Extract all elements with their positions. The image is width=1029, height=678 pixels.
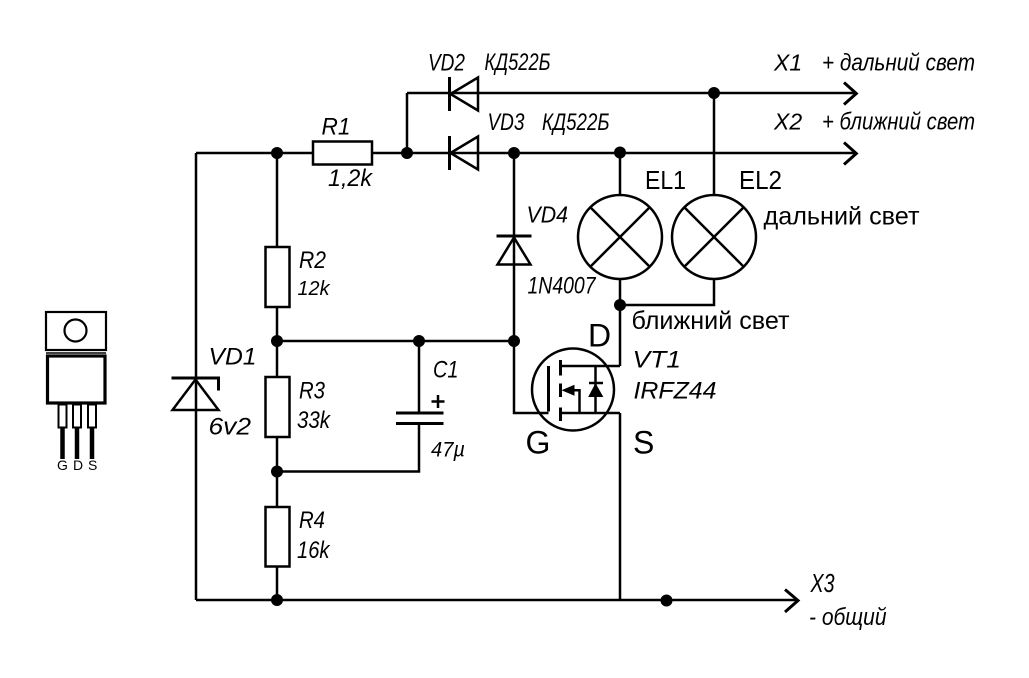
svg-text:X2: X2 — [773, 109, 802, 135]
svg-text:R1: R1 — [322, 114, 351, 141]
wire: R3 top vertical — [276, 341, 279, 377]
svg-text:S: S — [88, 457, 97, 473]
TO-220 mounting hole — [65, 320, 87, 342]
wire: X2 line through VD3 — [407, 152, 854, 155]
junction dot: EL2 top on X1 line — [708, 87, 720, 99]
wire: mid horizontal node bus — [277, 340, 514, 343]
wire: bottom common rail to X3 — [196, 599, 796, 602]
wire: top horizontal from left rail to R1 — [196, 152, 313, 155]
wire: X1 line — [407, 92, 854, 95]
svg-text:+ дальний свет: + дальний свет — [822, 50, 975, 77]
body diode cathode bar — [589, 382, 603, 385]
svg-text:G: G — [57, 457, 68, 473]
body diode filled triangle — [589, 384, 603, 396]
svg-text:VD1: VD1 — [209, 344, 257, 371]
wire: R4 top vertical — [276, 472, 279, 508]
TO-220 leg 1 lower solid — [60, 428, 65, 460]
TO-220 tab/body separator line — [46, 352, 106, 354]
svg-text:R3: R3 — [299, 378, 326, 405]
channel dashes — [559, 360, 562, 421]
junction dot: R1 left node — [271, 147, 283, 159]
svg-text:G: G — [526, 425, 551, 461]
junction dot: mid bus at VD4/gate — [508, 335, 520, 347]
body tie with arrow — [565, 390, 580, 413]
svg-text:КД522Б: КД522Б — [485, 49, 551, 76]
source lead inside — [561, 412, 621, 415]
wire: source vertical to bottom rail — [619, 413, 622, 600]
wire: R1 output to node — [372, 152, 407, 155]
arrowhead X2 — [844, 143, 856, 165]
TO-220 package drawing — [46, 312, 106, 459]
junction dot: bottom rail at R4 — [271, 594, 283, 606]
svg-text:IRFZ44: IRFZ44 — [634, 378, 717, 405]
capacitor C1 — [396, 413, 444, 424]
svg-text:C1: C1 — [433, 357, 459, 384]
TO-220 leg 2 lower solid — [75, 428, 80, 460]
wire: R2 bottom vertical — [276, 307, 279, 341]
svg-text:VT1: VT1 — [633, 347, 682, 374]
svg-text:+ ближний свет: + ближний свет — [822, 109, 975, 136]
wire: EL1 top vertical — [619, 153, 622, 195]
lamp EL1 — [578, 195, 662, 279]
TO-220 plastic body — [48, 356, 106, 403]
svg-text:- общий: - общий — [809, 604, 887, 631]
resistor R4 — [266, 507, 290, 567]
svg-text:VD2: VD2 — [428, 50, 465, 77]
wire: lamp bottoms bus — [620, 279, 714, 305]
svg-text:EL2: EL2 — [739, 165, 782, 195]
svg-text:12k: 12k — [298, 278, 331, 300]
wire: vertical between X1 line and R1 node — [406, 93, 409, 153]
TO-220 metal tab — [46, 312, 106, 350]
svg-text:33k: 33k — [297, 407, 332, 434]
body diode line — [594, 366, 597, 413]
svg-text:D: D — [588, 318, 611, 354]
wire: R2 top vertical — [276, 153, 279, 247]
wire: drain vertical — [619, 305, 622, 366]
svg-text:EL1: EL1 — [645, 165, 686, 195]
arrowhead X3 — [785, 590, 798, 613]
TO-220 leg 2 outline — [73, 405, 81, 428]
svg-text:D: D — [73, 457, 83, 473]
resistor R3 — [266, 377, 290, 437]
resistor R2 — [266, 247, 290, 307]
zener diode VD1 — [172, 378, 219, 410]
junction dot: bottom rail right — [661, 595, 673, 607]
junction dot: mid bus at R2/R3 — [271, 335, 283, 347]
junction dot: lamp bottoms / drain node — [614, 299, 626, 311]
diode VD2 — [450, 77, 479, 111]
wire: gate connection from VD4 node — [514, 341, 549, 413]
svg-text:VD4: VD4 — [527, 202, 569, 228]
gate bar — [547, 366, 550, 412]
TO-220 leg 3 outline — [88, 405, 96, 428]
junction dot: mid bus at C1 — [413, 335, 425, 347]
svg-text:VD3: VD3 — [488, 109, 526, 136]
wire: C1 top vertical — [418, 341, 421, 413]
svg-text:дальний свет: дальний свет — [764, 203, 921, 231]
svg-text:S: S — [633, 425, 654, 461]
TO-220 leg 1 outline — [59, 405, 67, 428]
body arrow head (points to channel) — [562, 385, 575, 396]
svg-text:16k: 16k — [297, 537, 331, 564]
junction dot: EL1 top on X2 line — [614, 147, 626, 159]
wire: VD4 branch vertical — [513, 153, 516, 341]
junction dot: R3/R4/C1 node — [271, 466, 283, 478]
svg-text:1,2k: 1,2k — [328, 165, 374, 192]
wire: left vertical rail — [195, 153, 198, 600]
svg-text:X1: X1 — [773, 50, 802, 76]
TO-220 leg 3 lower solid — [90, 428, 95, 460]
wire: R4 bottom vertical — [276, 567, 279, 601]
svg-text:КД522Б: КД522Б — [542, 109, 610, 136]
resistor R1 — [313, 142, 372, 165]
svg-text:R2: R2 — [299, 247, 326, 274]
svg-text:1N4007: 1N4007 — [528, 273, 597, 300]
lamp EL2 — [672, 195, 756, 279]
wire: EL2 top vertical — [713, 93, 716, 195]
junction dot: VD3 cathode node — [508, 147, 520, 159]
wire: R3 bottom vertical — [276, 437, 279, 472]
wire: C1 bottom vertical and return to R3/R4 node — [277, 424, 419, 472]
svg-text:ближний свет: ближний свет — [632, 307, 791, 335]
arrowhead X1 — [844, 83, 856, 105]
transistor VT1 MOSFET body — [532, 349, 620, 431]
svg-text:47µ: 47µ — [431, 438, 465, 462]
wire: EL1 bottom vertical — [619, 279, 622, 305]
svg-text:6v2: 6v2 — [209, 414, 252, 441]
svg-text:X3: X3 — [810, 568, 835, 598]
C1 polarity plus sign — [432, 395, 445, 408]
junction dot: R1 right node — [401, 147, 413, 159]
diode VD3 — [450, 136, 479, 170]
drain lead inside — [561, 365, 621, 368]
diode VD4 — [497, 236, 532, 265]
svg-text:R4: R4 — [299, 507, 325, 534]
